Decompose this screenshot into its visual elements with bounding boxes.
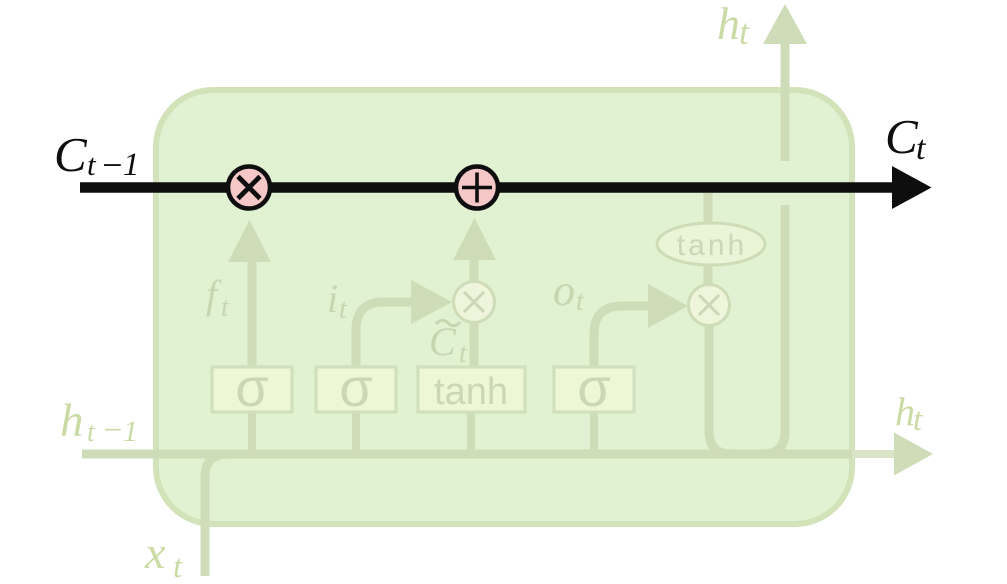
svg-text:t: t (221, 292, 230, 323)
svg-text:C: C (885, 109, 919, 164)
svg-text:t: t (87, 147, 97, 182)
svg-text:o: o (553, 266, 575, 315)
svg-text:1: 1 (123, 147, 140, 183)
svg-text:h: h (60, 395, 84, 447)
svg-text:σ: σ (577, 358, 610, 418)
svg-text:t: t (87, 417, 96, 448)
svg-text:σ: σ (339, 358, 372, 418)
svg-text:t: t (459, 338, 468, 369)
svg-text:x: x (144, 527, 166, 578)
svg-text:tanh: tanh (434, 371, 508, 413)
svg-text:h: h (895, 389, 915, 434)
svg-text:t: t (576, 286, 585, 317)
svg-text:−: − (101, 412, 124, 449)
svg-text:t: t (913, 402, 923, 438)
svg-text:i: i (327, 276, 338, 321)
svg-text:t: t (739, 12, 750, 52)
svg-text:t: t (173, 549, 183, 584)
svg-text:t: t (339, 294, 348, 325)
svg-text:h: h (717, 0, 740, 49)
svg-text:σ: σ (235, 358, 268, 418)
svg-text:1: 1 (123, 415, 138, 448)
svg-text:t: t (916, 130, 927, 167)
svg-text:C: C (54, 127, 88, 182)
svg-text:tanh: tanh (677, 229, 747, 262)
svg-text:−: − (100, 145, 124, 185)
